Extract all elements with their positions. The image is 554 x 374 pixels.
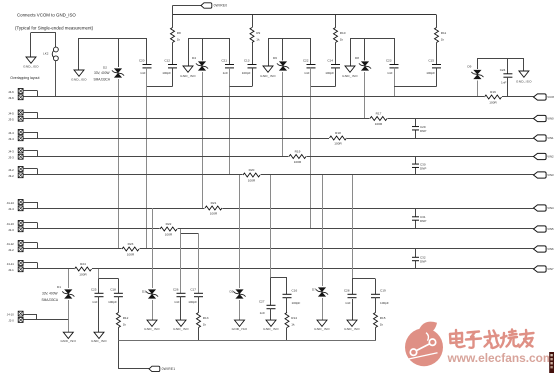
svg-text:SMAJ33CA: SMAJ33CA: [94, 77, 111, 81]
wire: [335, 15, 337, 28]
svg-text:LK2: LK2: [43, 52, 49, 56]
svg-text:D5: D5: [230, 290, 234, 294]
wire: [352, 299, 354, 320]
wire: [146, 68, 148, 249]
capacitor C32 (DNP): [415, 249, 417, 258]
TVS diode D6: [279, 61, 287, 66]
svg-text:D1: D1: [57, 285, 61, 289]
svg-text:R20: R20: [249, 168, 255, 172]
wire: [335, 43, 337, 65]
connector pins J4-4/J3-4: [18, 130, 23, 135]
wire: [229, 38, 231, 65]
svg-text:C19: C19: [380, 289, 386, 293]
svg-text:1k: 1k: [291, 322, 295, 326]
svg-text:R14: R14: [291, 316, 297, 320]
jumper LK2: [54, 47, 59, 52]
wire: [23, 202, 37, 204]
ground GND_ISO: [263, 66, 273, 72]
svg-text:GND_ISO: GND_ISO: [71, 78, 87, 82]
svg-text:100R: 100R: [165, 232, 173, 236]
wire: [282, 72, 284, 157]
wire: [252, 43, 254, 65]
connector pins J4-5/J3-5: [18, 110, 23, 115]
svg-text:C22: C22: [303, 59, 309, 63]
wire: [78, 38, 80, 70]
resistor R23: [122, 247, 140, 252]
svg-text:GND_ISO: GND_ISO: [173, 327, 189, 331]
svg-text:R18: R18: [335, 131, 341, 135]
svg-text:J2-1: J2-1: [8, 268, 14, 272]
svg-text:R24: R24: [80, 262, 86, 266]
wire: [477, 81, 479, 98]
svg-text:100pF: 100pF: [325, 71, 334, 75]
wire: [198, 234, 200, 294]
svg-text:GND_ISO: GND_ISO: [263, 327, 279, 331]
wire: [118, 279, 120, 294]
svg-text:C21: C21: [221, 59, 227, 63]
resistor R22: [160, 227, 178, 232]
connector pins J4-10/J2-0: [18, 311, 23, 316]
wire: [202, 38, 204, 61]
wire: [99, 278, 118, 280]
svg-text:R11: R11: [441, 31, 447, 35]
svg-text:1nF: 1nF: [174, 300, 179, 304]
svg-text:VIN0: VIN0: [547, 117, 554, 121]
resistor R9: [250, 28, 254, 43]
capacitor C19: [371, 293, 380, 295]
svg-text:100pF: 100pF: [162, 71, 171, 75]
wire: [23, 132, 37, 134]
wire: [202, 72, 204, 208]
svg-text:C14: C14: [327, 59, 333, 63]
resistor R11: [435, 28, 439, 43]
capacitor C20: [143, 64, 152, 66]
wire: [375, 298, 377, 313]
wire: [477, 58, 524, 60]
svg-text:1nF: 1nF: [260, 311, 265, 315]
wire: [311, 86, 336, 88]
wire: [375, 328, 377, 341]
TVS diode D9: [473, 70, 481, 75]
svg-text:(Typical for Single-ended meas: (Typical for Single-ended measurement): [15, 26, 94, 31]
svg-text:J2-3: J2-3: [8, 228, 14, 232]
wire: [146, 38, 148, 65]
svg-text:100R: 100R: [210, 211, 218, 215]
svg-text:Connects VCOM to GND_ISO: Connects VCOM to GND_ISO: [17, 13, 76, 18]
capacitor C18: [114, 292, 123, 294]
wire: [252, 15, 254, 28]
svg-text:R12: R12: [123, 316, 129, 320]
connector pins J4-11/J2-1: [18, 261, 23, 266]
wire: [152, 300, 154, 320]
wire: [172, 68, 174, 87]
TVS diode D3: [148, 289, 156, 294]
svg-text:C23: C23: [386, 59, 392, 63]
svg-text:VIN6: VIN6: [547, 247, 554, 251]
svg-text:J4-11: J4-11: [7, 262, 14, 266]
capacitor C26: [177, 292, 186, 294]
wire: [352, 175, 354, 279]
capacitor C14: [331, 64, 340, 66]
wire: [152, 208, 154, 288]
capacitor C30 (DNP): [415, 157, 417, 165]
svg-text:J3-4: J3-4: [8, 137, 14, 141]
wire: [252, 68, 254, 87]
svg-text:C26: C26: [173, 288, 179, 292]
svg-text:GND_ISO: GND_ISO: [60, 339, 76, 343]
wire: [352, 279, 354, 295]
svg-text:J3-2: J3-2: [8, 174, 14, 178]
svg-text:J4-4: J4-4: [8, 131, 14, 135]
wire: [286, 328, 288, 341]
ground GND_ISO: [176, 320, 186, 326]
svg-text:VIN5: VIN5: [547, 227, 554, 231]
svg-text:1nF: 1nF: [345, 301, 350, 305]
wire: [23, 112, 37, 114]
svg-text:VIN4: VIN4: [547, 206, 554, 210]
wire: [98, 279, 100, 294]
svg-text:C25: C25: [91, 288, 97, 292]
TVS diode D1: [64, 289, 72, 294]
wire: [436, 15, 438, 28]
wire: [282, 38, 284, 61]
svg-text:C18: C18: [110, 288, 116, 292]
svg-text:D8: D8: [355, 56, 359, 60]
wire: [394, 68, 396, 97]
svg-text:www.elecfans.com: www.elecfans.com: [447, 351, 554, 365]
svg-text:100pF: 100pF: [108, 300, 117, 304]
ground GND_ISO: [266, 320, 276, 326]
wire: [436, 43, 438, 65]
net label 0WIRE1: [149, 366, 160, 371]
wire: [270, 309, 272, 321]
wire: [118, 38, 120, 67]
wire: [322, 298, 324, 320]
wire: [477, 58, 479, 69]
TVS diode D5: [235, 289, 243, 294]
connector pins J4-2/J3-2: [18, 167, 23, 172]
svg-text:DNP: DNP: [420, 166, 426, 170]
resistor R12: [116, 313, 120, 328]
svg-text:1k: 1k: [256, 37, 260, 41]
TVS diode D2: [114, 68, 122, 73]
wire: [507, 77, 509, 97]
wire: [30, 33, 32, 58]
capacitor C27: [267, 304, 276, 306]
svg-text:33V, 400W: 33V, 400W: [42, 292, 57, 296]
wire: [198, 297, 200, 313]
watermark logo: [405, 322, 443, 367]
TVS diode D4: [198, 61, 206, 66]
wire: [239, 300, 241, 320]
wire: [188, 38, 230, 40]
resistor R10: [334, 28, 338, 43]
svg-text:J4-10: J4-10: [7, 312, 14, 316]
wire: [350, 38, 394, 40]
svg-text:1nF: 1nF: [92, 300, 97, 304]
ground GND_ISO: [317, 320, 327, 326]
svg-text:C15: C15: [428, 59, 434, 63]
svg-text:J3-3: J3-3: [8, 156, 14, 160]
wire: [118, 79, 120, 249]
wire: [147, 86, 173, 88]
connector pins J4-12/J2-2: [18, 241, 23, 246]
ground GND_ISO: [519, 71, 529, 77]
svg-text:DNP: DNP: [420, 219, 426, 223]
resistor R20: [243, 173, 261, 178]
wire 0WIRE0 bus: [173, 14, 437, 16]
wire 0WIRE1 bus: [118, 340, 375, 342]
resistor R14: [285, 313, 289, 328]
wire: [23, 242, 37, 244]
ground GND_ISO: [63, 332, 73, 338]
wire: [23, 262, 37, 264]
resistor R24: [74, 267, 92, 272]
wire: [23, 228, 533, 230]
svg-text:1k: 1k: [177, 37, 181, 41]
capacitor C28: [348, 293, 357, 295]
svg-text:1nF: 1nF: [223, 71, 228, 75]
ground GND_ISO: [345, 66, 355, 72]
ground GND_ISO: [183, 66, 193, 72]
svg-text:J4-5: J4-5: [8, 112, 14, 116]
ground GND_ISO: [94, 332, 104, 338]
svg-text:D3: D3: [142, 290, 146, 294]
svg-text:1k: 1k: [123, 322, 127, 326]
svg-text:VIN1: VIN1: [547, 136, 554, 140]
svg-text:VIN7: VIN7: [547, 267, 554, 271]
wire: [229, 68, 231, 175]
connector pins J4-3/J3-3: [18, 148, 23, 153]
connector pins J4-14/J2-4: [18, 200, 23, 205]
svg-text:J4-14: J4-14: [7, 201, 15, 205]
wire: [523, 58, 525, 71]
svg-text:SMAJ33CA: SMAJ33CA: [42, 298, 59, 302]
svg-text:100pF: 100pF: [380, 301, 389, 305]
wire: [180, 234, 182, 294]
wire: [286, 277, 288, 294]
svg-text:D4: D4: [192, 56, 196, 60]
wire: [335, 68, 337, 87]
wire: [181, 233, 199, 235]
wire: [310, 38, 312, 65]
svg-text:R9: R9: [256, 31, 260, 35]
svg-text:100R: 100R: [375, 122, 383, 126]
svg-text:D9: D9: [467, 64, 471, 68]
svg-text:VIN2: VIN2: [547, 155, 554, 159]
svg-text:C27: C27: [259, 300, 265, 304]
svg-text:J4-12: J4-12: [7, 242, 15, 246]
resistor R17: [370, 116, 388, 121]
capacitor C23: [390, 64, 399, 66]
net label VIN2: [534, 153, 547, 159]
svg-text:J4-13: J4-13: [7, 222, 15, 226]
svg-text:R17: R17: [376, 111, 382, 115]
capacitor C21: [225, 64, 234, 66]
resistor R13: [197, 313, 201, 328]
net label VIN1: [534, 135, 547, 141]
wire: [172, 15, 174, 28]
resistor R15: [374, 313, 378, 328]
wire: [118, 328, 120, 341]
net label VIN3: [534, 172, 547, 178]
svg-text:C17: C17: [190, 288, 196, 292]
svg-text:GND_ISO: GND_ISO: [232, 327, 248, 331]
wire: [98, 297, 100, 333]
wire: [310, 68, 312, 229]
wire: [98, 269, 100, 279]
svg-text:100pF: 100pF: [292, 301, 301, 305]
svg-text:100pF: 100pF: [188, 300, 197, 304]
svg-text:R8: R8: [177, 31, 181, 35]
wire: [230, 86, 253, 88]
wire: [172, 6, 174, 16]
capacitor C22: [307, 64, 316, 66]
wire: [188, 38, 190, 66]
wire: [68, 269, 70, 288]
wire: [23, 268, 533, 270]
capacitor C15: [432, 64, 441, 66]
wire: [180, 229, 182, 234]
wire: [352, 278, 376, 280]
wire: [23, 96, 533, 98]
wire: [172, 43, 174, 65]
wire: [23, 118, 533, 120]
svg-text:100R: 100R: [489, 100, 497, 104]
svg-text:C20: C20: [139, 59, 145, 63]
svg-text:Overlapping layout: Overlapping layout: [10, 76, 39, 80]
svg-text:1k: 1k: [340, 37, 344, 41]
svg-text:100R: 100R: [334, 141, 342, 145]
net label VIN6: [534, 246, 547, 252]
svg-text:J4-2: J4-2: [8, 168, 14, 172]
wire: [23, 174, 533, 176]
wire: [350, 38, 352, 66]
connector pins J4-6/J3-6: [18, 89, 23, 94]
wire: [23, 319, 68, 321]
wire: [436, 68, 438, 87]
wire: [270, 175, 272, 277]
svg-text:R19: R19: [295, 149, 301, 153]
connector pins J4-13/J2-3: [18, 221, 23, 226]
svg-text:R15: R15: [380, 316, 386, 320]
wire: [364, 38, 366, 61]
wire: [23, 314, 36, 316]
net label VIN5: [534, 226, 547, 232]
wire: [68, 300, 70, 332]
svg-text:R23: R23: [128, 242, 134, 246]
resistor R21: [205, 206, 223, 211]
svg-text:VCOM: VCOM: [547, 95, 554, 99]
svg-text:C13: C13: [244, 59, 250, 63]
svg-text:GND_ISO: GND_ISO: [516, 79, 532, 83]
svg-text:D2: D2: [103, 66, 107, 70]
capacitor C24: [503, 73, 512, 75]
svg-text:R21: R21: [211, 201, 217, 205]
ground GND_ISO: [147, 320, 157, 326]
net label VIN7: [534, 266, 547, 272]
wire: [239, 175, 241, 288]
svg-text:1k: 1k: [441, 37, 445, 41]
wire: [271, 277, 287, 279]
svg-text:J2-4: J2-4: [8, 207, 14, 211]
wire: [23, 168, 37, 170]
capacitor C25: [95, 292, 104, 294]
svg-text:D7: D7: [312, 288, 316, 292]
svg-text:1nF: 1nF: [304, 71, 309, 75]
net label VIN4: [534, 205, 547, 211]
svg-text:VIN3: VIN3: [547, 173, 554, 177]
svg-text:GND_ISO: GND_ISO: [314, 327, 330, 331]
wire: [23, 248, 533, 250]
ground GND_ISO: [235, 320, 245, 326]
svg-text:J2-2: J2-2: [8, 248, 14, 252]
wire: [375, 279, 377, 295]
ground GND_ISO: [74, 70, 84, 76]
capacitor C17: [194, 292, 203, 294]
wire: [364, 72, 366, 119]
svg-text:0WIRE0: 0WIRE0: [214, 4, 228, 8]
wire: [118, 297, 120, 313]
svg-text:1k: 1k: [380, 322, 384, 326]
svg-text:1nF: 1nF: [387, 71, 392, 75]
ground GND_ISO: [347, 320, 357, 326]
svg-text:J3-6: J3-6: [8, 96, 14, 100]
wire: [118, 341, 120, 369]
svg-text:J4-3: J4-3: [8, 150, 14, 154]
net label VCOM: [534, 94, 547, 100]
wire: [394, 38, 396, 65]
svg-text:GND_ISO: GND_ISO: [260, 74, 276, 78]
resistor R16: [484, 95, 502, 100]
wire: [394, 86, 437, 88]
svg-text:1nF: 1nF: [501, 81, 506, 85]
capacitor C13: [248, 64, 257, 66]
svg-text:R13: R13: [203, 316, 209, 320]
resistor R8: [171, 28, 175, 43]
svg-text:C28: C28: [344, 289, 350, 293]
svg-text:100R: 100R: [79, 272, 87, 276]
wire: [322, 175, 324, 286]
wire: [268, 38, 270, 66]
wire: [23, 208, 533, 210]
capacitor C12: [168, 64, 177, 66]
svg-text:0WIRE1: 0WIRE1: [162, 367, 176, 371]
wire: [55, 61, 57, 97]
svg-text:R16: R16: [490, 90, 496, 94]
wire: [270, 277, 272, 305]
svg-text:GND_ISO: GND_ISO: [91, 339, 107, 343]
svg-text:R22: R22: [166, 222, 172, 226]
wire: [180, 297, 182, 321]
net label VIN0: [534, 115, 547, 121]
resistor R18: [329, 136, 347, 141]
svg-text:J4-6: J4-6: [8, 90, 14, 94]
wire: [23, 90, 37, 92]
svg-text:DNP: DNP: [420, 129, 426, 133]
net label 0WIRE0: [201, 3, 212, 8]
resistor R19: [289, 154, 307, 159]
capacitor C29 (DNP): [415, 119, 417, 127]
wire: [23, 150, 37, 152]
wire: [507, 58, 509, 74]
svg-text:1nF: 1nF: [140, 71, 145, 75]
ground GND_ISO: [26, 57, 36, 63]
svg-text:100pF: 100pF: [426, 71, 435, 75]
svg-text:C12: C12: [164, 59, 170, 63]
svg-text:GND_ISO: GND_ISO: [342, 74, 358, 78]
wire: [23, 138, 533, 140]
